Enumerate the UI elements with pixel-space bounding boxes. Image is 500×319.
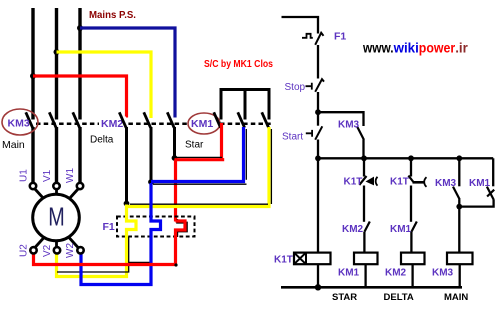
contactor KM1 star-point bus [221, 90, 269, 120]
svg-text:Start: Start [282, 132, 303, 143]
svg-text:KM3: KM3 [338, 120, 360, 131]
svg-text:K1T: K1T [274, 255, 293, 266]
KM1 linkage dashed line [220, 123, 272, 126]
wire KM3 holding branch top [318, 112, 364, 126]
wire KM3 coil to bottom rail [459, 264, 461, 287]
node red corner dot [174, 263, 177, 266]
control distribution rail [318, 157, 493, 159]
node rail junction x318 [315, 155, 321, 161]
contactor KM1 pole2 blade [238, 112, 245, 127]
svg-text:KM3: KM3 [8, 118, 30, 130]
wire main line to K1T coil [317, 158, 319, 252]
wire phase L3 [78, 8, 81, 120]
contact K1T timed NO blade delta branch [408, 176, 413, 182]
svg-text:KM1: KM1 [191, 118, 213, 130]
svg-text:KM3: KM3 [432, 268, 454, 279]
wire KM3 pole3 to motor W1 [78, 127, 81, 184]
svg-text:F1: F1 [103, 221, 115, 233]
wire red down to overload [174, 160, 177, 222]
contactor KM3 pole1 blade [26, 112, 33, 127]
node rail junction x411 [408, 155, 414, 161]
button Start blade [315, 126, 322, 139]
wire black shadow above yellow horizontal [130, 203, 268, 205]
wire main branch KM3 contact top [458, 158, 460, 186]
wire KM2 pole2 output [150, 127, 153, 181]
label www.wikipower.ir [362, 40, 468, 56]
wire K1T coil to bottom rail [317, 264, 319, 287]
svg-text:KM3: KM3 [435, 178, 457, 189]
label KM2 delta contactor [99, 117, 126, 129]
wire KM1 pole3 yellow drop [127, 127, 269, 207]
svg-text:KM2: KM2 [342, 224, 364, 235]
motor stub U1 [35, 189, 45, 200]
overload F1 heater blue [81, 183, 161, 285]
wire KM3 pole1 to motor U1 [31, 127, 34, 184]
node L1 tap junction [30, 73, 36, 79]
svg-text:U1: U1 [19, 169, 30, 182]
svg-text:KM1: KM1 [390, 224, 412, 235]
svg-text:Star: Star [185, 140, 204, 151]
contact K1T timed NC wedge [366, 177, 375, 186]
node L3 tap junction [77, 25, 83, 31]
svg-text:K1T: K1T [390, 177, 409, 188]
svg-text:DELTA: DELTA [384, 292, 414, 303]
wire black shadow right of blue drop [245, 129, 247, 180]
svg-text:Delta: Delta [90, 135, 114, 146]
wire delta branch top [410, 158, 412, 176]
node rail junction x459 [456, 155, 462, 161]
node KM2 pole1 junction [124, 201, 130, 207]
wire KM3 pole2 to motor V1 [55, 127, 58, 184]
svg-text:KM2: KM2 [385, 268, 407, 279]
wire F1 to Stop [317, 45, 319, 79]
contactor KM3 pole2 blade [49, 112, 56, 127]
wire main branch rejoin [459, 199, 493, 206]
wire KM1 pole1 red drop [220, 123, 223, 160]
motor terminal W2 [77, 247, 83, 253]
wire phase L2 [55, 8, 58, 120]
svg-text:.ir: .ir [455, 40, 468, 56]
svg-text:wiki: wiki [393, 40, 419, 56]
contactor KM3 pole3 blade [73, 112, 80, 127]
wire black shadow above red horizontal [175, 156, 222, 158]
motor terminal U2 [30, 247, 36, 253]
wire Start to rail [317, 140, 319, 159]
wire phase L1 [31, 8, 34, 120]
KM3 KM2 linkage dashed line [36, 123, 188, 126]
wire red horizontal KM1 to KM2 pole3 [175, 158, 225, 161]
svg-text:W1: W1 [65, 168, 76, 183]
wire KM1 coil to bottom rail [364, 264, 366, 287]
svg-text:F1: F1 [334, 31, 346, 43]
svg-text:Main: Main [2, 139, 25, 151]
motor terminal V2 [54, 247, 60, 253]
motor terminal W1 [77, 183, 83, 189]
motor terminal V1 [53, 183, 59, 189]
contact K1T timed NC arc [376, 177, 378, 186]
wire Stop to Start [317, 92, 319, 126]
node rail junction x364 [361, 155, 367, 161]
node start branch junction [315, 109, 321, 115]
svg-text:STAR: STAR [332, 292, 357, 303]
wire delta branch to KM2 coil [410, 232, 412, 253]
contact K1T timed NO arc [424, 177, 426, 187]
wire KM2 pole3 output [173, 127, 176, 157]
KM3 designator ellipse [2, 109, 38, 135]
contactor KM2 pole2 blade [144, 112, 151, 127]
overload F1 heater red and return to U2 [34, 221, 186, 265]
contactor KM1 pole3 blade [262, 112, 269, 127]
node main branch junction [456, 204, 462, 210]
svg-text:KM1: KM1 [338, 268, 360, 279]
svg-text:KM2: KM2 [101, 118, 123, 130]
motor stub U2 [35, 238, 45, 249]
contact KM3 holding blade [357, 126, 364, 140]
button Stop actuator [306, 83, 312, 90]
coil KM1 body [354, 253, 378, 265]
contactor KM1 pole1 blade [214, 112, 221, 127]
svg-text:W2: W2 [65, 243, 76, 258]
contact KM1 interlock blade [411, 222, 416, 232]
node bottom rail junction [315, 284, 321, 290]
wire mains yellow to KM2 pole2 [57, 52, 152, 118]
motor stub W2 [69, 238, 79, 249]
coil KM3 body [447, 253, 473, 265]
control bottom rail [281, 286, 462, 289]
wire star branch middle [363, 186, 365, 222]
wire to KM3 coil [458, 207, 460, 253]
coil K1T timer body [294, 253, 331, 265]
contact KM2 interlock blade [364, 222, 369, 232]
svg-text:www.: www. [362, 40, 393, 56]
motor terminal U1 [30, 183, 36, 189]
svg-text:KM1: KM1 [469, 178, 491, 189]
wire black shadow under blue horizontal [153, 183, 247, 185]
svg-text:MAIN: MAIN [444, 292, 468, 303]
contact KM1 NC blade main branch [487, 187, 494, 200]
contact K1T timed NC blade star branch [359, 176, 366, 185]
contactor KM2 pole3 blade [167, 112, 174, 127]
contact K1T timed NO bar [413, 181, 425, 184]
svg-text:Mains P.S.: Mains P.S. [89, 9, 136, 21]
coil K1T timer X mark [294, 253, 306, 265]
svg-text:K1T: K1T [344, 177, 363, 188]
node KM2 pole3 junction [172, 155, 178, 161]
svg-text:power: power [419, 40, 456, 56]
breaker F1 blade [315, 33, 323, 45]
wire delta branch middle [410, 186, 412, 222]
svg-text:Stop: Stop [285, 82, 306, 93]
control supply top wire [282, 17, 319, 34]
coil KM2 body [401, 253, 425, 265]
wire rail corner to KM1 NC contact [492, 158, 494, 186]
motor stub V1 [55, 188, 58, 195]
wire KM2 pole1 output [125, 127, 128, 202]
wire star branch to KM1 coil [363, 232, 365, 253]
motor stub V2 [55, 241, 58, 248]
contact KM3 aux blade main branch [453, 187, 460, 200]
breaker F1 trip symbol [302, 34, 313, 38]
button Start actuator [306, 130, 312, 137]
wire KM2 coil to bottom rail [411, 264, 413, 287]
wire black shadow right of yellow heater exit [57, 237, 129, 273]
svg-text:V1: V1 [42, 169, 53, 182]
motor M1 body [33, 194, 80, 241]
wire mains blue to KM2 pole3 [80, 28, 175, 118]
svg-text:S/C by MK1 Clos: S/C by MK1 Clos [204, 58, 273, 70]
svg-text:M: M [48, 202, 65, 232]
overload F1 heater yellow [57, 205, 137, 277]
wire star branch top [363, 158, 365, 176]
wire mains red to KM2 pole1 [33, 76, 127, 118]
wire black remnant to blue heater [129, 261, 151, 263]
wire black shadow right of yellow drop [270, 129, 272, 204]
svg-text:U2: U2 [19, 244, 30, 257]
wire KM3 holding branch bottom [362, 140, 364, 159]
KM1 designator ellipse [188, 113, 220, 134]
motor stub W1 [69, 189, 79, 200]
contactor KM2 pole1 blade [119, 112, 126, 127]
node L2 tap junction [54, 49, 60, 55]
wire KM1 pole2 blue drop [151, 127, 244, 182]
svg-text:V2: V2 [42, 244, 53, 257]
overload F1 dashed box [117, 217, 195, 237]
overload F1 heater red shadow [177, 219, 187, 237]
button Stop blade [315, 79, 324, 92]
node KM2 pole2 junction [148, 179, 154, 185]
